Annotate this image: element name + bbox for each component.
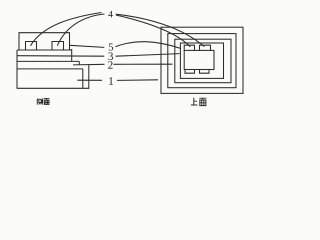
char 面 (44, 99, 50, 105)
caption 侧面 (side view), drawn as vector strokes (0, 0, 269, 120)
top view: top pad right (200, 45, 211, 51)
caption 上面 (top view), drawn as vector strokes (0, 0, 269, 120)
side view: step segment y61 (17, 60, 79, 62)
leader curve label4 to top-view right pad (116, 14, 205, 46)
label 5 (109, 44, 113, 51)
side view: layer boundary + leader to 3 (17, 55, 104, 58)
top view: bottom tab right (200, 70, 210, 74)
leader from base block to label 1 (left part) (77, 79, 102, 81)
leader from lid edge to label 5 (70, 45, 105, 47)
top view: top pad left (184, 45, 194, 51)
label 3 (108, 53, 113, 60)
char 上 (191, 98, 198, 105)
label 1 (109, 77, 113, 85)
side view: step vertical x80.5 (78, 61, 80, 65)
label 4 (108, 11, 113, 17)
leader arc label5 to top view (116, 42, 182, 49)
side view: stack top face line (17, 49, 72, 51)
top view: core die rectangle (184, 50, 214, 69)
top view: fourth rectangle (180, 43, 223, 78)
char 侧 (37, 98, 43, 104)
leader curve label4 to top-view left pad (116, 15, 191, 47)
side view: electrode bump right (4) (52, 42, 64, 51)
side view: lid / cap rectangle (layer 5) (19, 33, 70, 50)
side view: stack right edge (88, 65, 90, 89)
leader curve label4 to left bump (31, 13, 102, 46)
side view: stack left edge (16, 50, 18, 88)
side view: layer boundary + leader to 2 (73, 63, 105, 66)
side view: step vertical x72 (71, 49, 73, 61)
side view: internal boundary of base block (17, 68, 83, 70)
char 面 (199, 98, 206, 105)
leader curve label4 to right bump (57, 14, 104, 46)
top view: outer rectangle (161, 27, 243, 93)
side view: stack bottom edge (17, 87, 90, 89)
label 2 (108, 61, 112, 68)
leader label1 to top view (117, 79, 158, 82)
side view: inner step vertical x82.8 (82, 69, 84, 88)
top view: second rectangle (168, 34, 236, 88)
leader label3 to top view (116, 54, 180, 57)
top view: bottom tab left (185, 70, 195, 74)
side view: electrode bump left (4) (26, 42, 37, 51)
leader label2 to top view (114, 63, 173, 65)
top view: third rectangle (175, 39, 231, 82)
